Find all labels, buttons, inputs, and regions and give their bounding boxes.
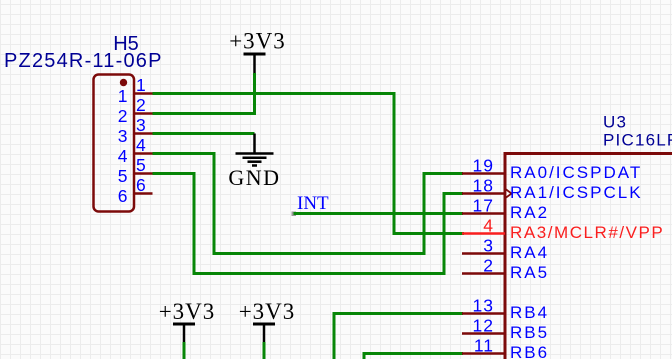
svg-text:17: 17 [473,196,494,216]
svg-text:RA5: RA5 [510,263,549,282]
svg-text:RB4: RB4 [510,303,549,322]
svg-text:RB5: RB5 [510,323,549,342]
svg-text:13: 13 [473,296,494,316]
svg-text:+3V3: +3V3 [229,29,286,54]
svg-text:PIC16LF1459: PIC16LF1459 [603,131,672,150]
svg-text:+3V3: +3V3 [159,299,216,324]
svg-text:RA4: RA4 [510,243,549,262]
svg-text:18: 18 [473,176,494,196]
svg-text:3: 3 [118,126,128,146]
svg-text:+3V3: +3V3 [239,299,296,324]
svg-text:RA1/ICSPCLK: RA1/ICSPCLK [510,183,643,202]
svg-text:INT: INT [297,193,329,214]
svg-text:2: 2 [483,256,494,276]
svg-text:RA0/ICSPDAT: RA0/ICSPDAT [510,163,642,182]
svg-text:RA3/MCLR#/VPP: RA3/MCLR#/VPP [510,223,664,242]
svg-text:5: 5 [136,155,146,175]
svg-text:1: 1 [118,86,128,106]
svg-text:1: 1 [136,75,146,95]
svg-text:RB6: RB6 [510,343,549,359]
svg-text:PZ254R-11-06P: PZ254R-11-06P [4,50,163,72]
svg-text:6: 6 [118,186,128,206]
svg-text:11: 11 [474,336,494,356]
svg-text:4: 4 [118,146,128,166]
svg-text:4: 4 [483,216,494,236]
svg-text:3: 3 [136,115,146,135]
svg-text:2: 2 [136,95,146,115]
svg-text:RA2: RA2 [510,203,549,222]
svg-text:3: 3 [483,236,494,256]
svg-text:4: 4 [136,135,146,155]
svg-text:19: 19 [473,156,494,176]
svg-text:2: 2 [118,106,128,126]
svg-text:12: 12 [473,316,494,336]
svg-text:U3: U3 [603,113,627,132]
svg-text:GND: GND [228,165,280,190]
svg-text:6: 6 [136,175,146,195]
svg-text:5: 5 [118,166,128,186]
